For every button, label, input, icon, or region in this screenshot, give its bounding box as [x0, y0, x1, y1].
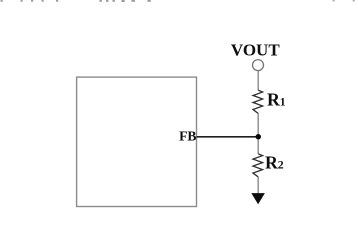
svg-text:FB: FB	[179, 129, 196, 144]
svg-text:1: 1	[280, 95, 286, 109]
svg-text:R: R	[267, 90, 280, 110]
svg-text:2: 2	[278, 158, 284, 172]
svg-text:R: R	[265, 153, 278, 173]
svg-text:VOUT: VOUT	[231, 41, 280, 60]
